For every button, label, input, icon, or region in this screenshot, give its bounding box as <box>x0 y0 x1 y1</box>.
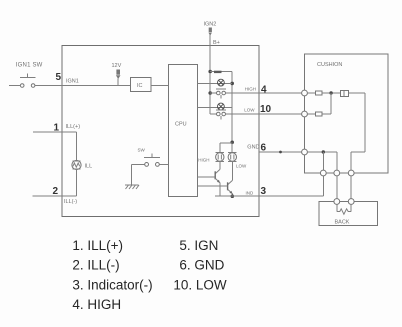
svg-text:4. HIGH: 4. HIGH <box>72 297 121 312</box>
node bus-C <box>208 91 212 95</box>
svg-text:1. ILL(+): 1. ILL(+) <box>72 238 123 253</box>
svg-text:2: 2 <box>53 186 59 197</box>
svg-text:10. LOW: 10. LOW <box>173 277 227 292</box>
switch IGN1 SW <box>20 77 36 79</box>
wire pin5 to IC <box>62 85 131 87</box>
wire IC to CPU <box>151 85 169 87</box>
svg-text:4: 4 <box>261 85 267 96</box>
wire pin 6 to cushion <box>259 151 302 153</box>
svg-text:IGN1: IGN1 <box>66 79 79 85</box>
node heater join <box>329 91 332 94</box>
wire lamp branch lower <box>75 169 77 196</box>
node splice <box>279 151 282 154</box>
wire lamp/coil feed vertical <box>231 72 233 143</box>
svg-text:ILL(-): ILL(-) <box>64 199 77 205</box>
lamp HIGH indicator <box>218 79 225 86</box>
resistor R1 feed <box>210 71 232 73</box>
heater element low <box>307 113 315 115</box>
svg-text:2. ILL(-): 2. ILL(-) <box>72 258 119 273</box>
thermostat <box>341 91 349 97</box>
svg-text:HIGH: HIGH <box>245 87 256 92</box>
wire pin 3 to ground bus <box>259 195 324 197</box>
wire pin 2 <box>33 195 63 197</box>
connector gnd bus 3 <box>348 170 354 176</box>
svg-text:IND: IND <box>246 191 255 196</box>
svg-text:10: 10 <box>260 104 272 115</box>
wire back feed 1 <box>336 176 338 199</box>
wire back feed 2 <box>350 176 352 199</box>
wire B+ bus <box>209 35 211 115</box>
connector back 1 <box>334 199 340 205</box>
svg-text:6. GND: 6. GND <box>179 258 224 273</box>
wire IGN1 feed <box>9 85 20 87</box>
svg-text:3: 3 <box>261 186 267 197</box>
node coil feed <box>230 141 234 145</box>
svg-text:HIGH: HIGH <box>198 158 209 163</box>
lamp LOW indicator <box>218 103 225 110</box>
wire switch to pin 5 <box>35 85 62 87</box>
connector gnd bus 1 <box>320 170 326 176</box>
wire 12V drop <box>117 79 119 86</box>
CPU U1 <box>169 65 198 197</box>
node bus-A <box>208 70 212 74</box>
wire coil feed branch <box>220 142 232 144</box>
switch SW <box>144 157 160 159</box>
svg-text:5. IGN: 5. IGN <box>179 238 218 253</box>
relay contact HIGH <box>210 92 216 94</box>
ground <box>125 184 139 186</box>
IC U2 <box>131 78 152 92</box>
node gnd <box>322 150 325 153</box>
wire lamp branch upper <box>75 132 77 161</box>
connector pin4 <box>302 90 308 96</box>
svg-text:LOW: LOW <box>236 164 247 169</box>
svg-text:GND: GND <box>247 145 259 151</box>
svg-text:IC: IC <box>137 83 143 89</box>
lamp ILL <box>72 160 81 169</box>
transistor Q1 <box>219 162 221 170</box>
svg-text:SW: SW <box>138 148 146 153</box>
relay coil LOW <box>228 151 237 153</box>
svg-text:12V: 12V <box>112 63 122 69</box>
connector pin10 <box>302 111 308 117</box>
svg-text:ILL(+): ILL(+) <box>66 124 81 130</box>
node emitter rail <box>231 194 235 198</box>
heater element high <box>307 92 315 94</box>
wire SW to ground <box>132 163 145 165</box>
connector pin6 <box>302 149 308 155</box>
relay contact LOW <box>210 113 216 115</box>
wire pin 10 to cushion <box>259 113 302 115</box>
wire contact to pin 10 <box>226 113 259 115</box>
cushion heater box <box>305 54 389 173</box>
wire pin 4 to cushion <box>259 92 302 94</box>
svg-text:CPU: CPU <box>175 122 187 128</box>
svg-text:CUSHION: CUSHION <box>317 62 342 68</box>
svg-text:IGN2: IGN2 <box>204 22 217 28</box>
svg-text:3. Indicator(-): 3. Indicator(-) <box>72 277 152 292</box>
wire gnd inside <box>307 151 336 153</box>
wire contact to pin 4 <box>226 92 259 94</box>
wire emitter rail to pin 3 <box>215 195 259 197</box>
svg-text:B+: B+ <box>213 40 220 46</box>
svg-text:ILL: ILL <box>85 164 93 170</box>
wire CPU to lamp2 <box>198 106 233 108</box>
wire SW to CPU <box>159 163 168 165</box>
back heater element <box>336 204 338 211</box>
connector back 2 <box>348 199 354 205</box>
transistor Q2 <box>231 162 233 181</box>
connector gnd bus 2 <box>334 170 340 176</box>
wire CPU to lamp1 <box>198 82 233 84</box>
svg-text:BACK: BACK <box>335 220 350 226</box>
svg-text:5: 5 <box>56 72 62 83</box>
svg-text:IGN1 SW: IGN1 SW <box>16 63 43 69</box>
main switch unit box <box>62 46 259 217</box>
node lamp feed <box>230 82 234 86</box>
wire pin 1 <box>33 131 76 133</box>
back heater box <box>319 202 377 226</box>
svg-text:LOW: LOW <box>244 108 255 113</box>
wire thermostat return <box>349 92 365 94</box>
